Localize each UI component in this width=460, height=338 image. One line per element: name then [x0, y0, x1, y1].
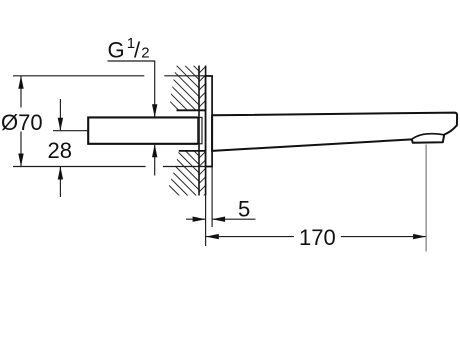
- svg-text:5: 5: [238, 197, 250, 222]
- svg-text:1: 1: [127, 35, 135, 52]
- svg-text:G: G: [108, 37, 125, 62]
- svg-text:Ø70: Ø70: [1, 110, 43, 135]
- svg-text:28: 28: [48, 138, 72, 163]
- svg-text:2: 2: [141, 44, 149, 61]
- svg-text:170: 170: [299, 225, 336, 250]
